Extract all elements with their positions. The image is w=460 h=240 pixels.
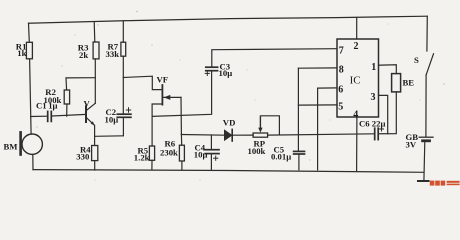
wire C5 bottom to ground rail — [298, 154, 300, 170]
svg-text:10μ: 10μ — [219, 68, 233, 78]
watermark red — [430, 181, 460, 186]
svg-text:8: 8 — [339, 65, 344, 76]
wire IC pin 3 to C6 node — [379, 95, 388, 134]
wire VF right lead down to R6 node — [180, 97, 182, 134]
potentiometer RP wiper arrow — [259, 117, 261, 129]
wire battery bottom to ground rail end — [423, 142, 426, 182]
svg-text:0.01μ: 0.01μ — [271, 152, 291, 162]
capacitor C3 plus sign — [205, 71, 209, 75]
wire rail to R7 — [122, 21, 124, 42]
transistor V base bar — [85, 106, 87, 122]
wire BM bottom to ground rail — [32, 154, 34, 169]
microphone BM circle — [22, 134, 42, 154]
svg-text:3V: 3V — [406, 140, 417, 150]
capacitor C3 plates — [206, 67, 218, 71]
svg-text:5: 5 — [338, 102, 343, 113]
svg-text:1.2k: 1.2k — [134, 153, 150, 163]
diode VD — [225, 130, 232, 140]
wire gate feed from R7 node to VF — [123, 76, 161, 89]
op-amp IC body — [337, 39, 379, 117]
transistor VF source lead — [152, 104, 162, 146]
svg-text:BM: BM — [4, 142, 18, 152]
capacitor C1 — [48, 111, 52, 121]
wire bottom ground rail — [33, 170, 424, 173]
resistor R1 — [26, 42, 32, 59]
svg-text:4: 4 — [353, 109, 358, 120]
wire C2 bottom to emitter wire — [122, 117, 124, 136]
wire emitter down — [94, 125, 96, 145]
capacitor C4 plates — [205, 150, 219, 154]
svg-text:1: 1 — [371, 62, 376, 73]
svg-text:2k: 2k — [79, 50, 88, 60]
wire rail corner to switch S — [426, 16, 428, 51]
potentiometer RP body — [253, 133, 268, 137]
capacitor C5 plates — [294, 151, 305, 154]
wire R6 bottom to ground rail — [181, 161, 183, 170]
svg-text:10μ: 10μ — [194, 150, 208, 160]
capacitor C2 plus sign — [126, 108, 130, 112]
resistor R3 — [93, 42, 99, 59]
capacitor C6 plates — [375, 128, 379, 139]
svg-text:2: 2 — [354, 41, 359, 52]
svg-text:3: 3 — [371, 92, 376, 103]
transistor V collector diagonal — [86, 103, 95, 110]
wire IC pin 2 to top rail — [356, 17, 358, 39]
switch S blade — [426, 54, 433, 75]
svg-text:BE: BE — [403, 78, 415, 88]
svg-text:230k: 230k — [160, 148, 178, 158]
battery end bar — [418, 180, 429, 182]
wire emitter to C2 bottom — [95, 135, 124, 138]
wire R6 node to VD anode — [181, 134, 224, 137]
wire IC pin 4 to ground rail — [356, 117, 358, 171]
transistor VF gate lead with arrow — [163, 96, 181, 98]
wire R7 bottom down to C2 — [122, 56, 124, 114]
svg-text:C1: C1 — [36, 101, 47, 111]
wire pin 6 vertical to ground rail — [317, 88, 319, 170]
earphone BE body — [392, 74, 401, 92]
wire IC pin 8 and pin 5 vertical with C5 — [297, 68, 299, 151]
wire pin 8 horizontal — [298, 67, 337, 69]
battery GB positive plate — [419, 136, 433, 138]
svg-text:100k: 100k — [248, 146, 266, 156]
resistor R4 — [92, 146, 98, 161]
wire RP right to C6 left — [268, 134, 375, 135]
svg-text:VD: VD — [223, 118, 236, 128]
svg-text:C6 22μ: C6 22μ — [359, 119, 385, 129]
svg-text:330: 330 — [76, 152, 90, 162]
wire base node to C1 left — [31, 115, 47, 117]
battery GB negative plate — [423, 139, 430, 142]
wire left branch top (rail to R1) — [28, 23, 31, 42]
wire R3 bottom to collector — [94, 59, 96, 103]
microphone BM element bar — [19, 132, 22, 154]
svg-text:1k: 1k — [17, 48, 26, 58]
wire R6 top lead — [180, 135, 182, 146]
svg-text:IC: IC — [350, 74, 361, 86]
resistor R7 — [121, 42, 126, 56]
wire top supply rail — [29, 16, 428, 23]
wire RP wiper over to output — [260, 116, 279, 135]
wire rail to R3 — [93, 22, 96, 42]
capacitor C4 plus sign — [214, 156, 218, 160]
transistor VF channel bar — [161, 85, 163, 105]
svg-text:7: 7 — [339, 46, 344, 57]
wire pin 5 horizontal — [298, 104, 337, 106]
capacitor C2 plates — [117, 114, 131, 117]
wire C4 top lead — [210, 135, 212, 150]
svg-text:6: 6 — [338, 85, 343, 96]
wire pin 6 horizontal — [318, 87, 337, 89]
svg-text:1μ: 1μ — [48, 101, 57, 111]
wire R2 bottom to base wire — [66, 104, 68, 116]
wire C3 top to IC pin 7 — [212, 49, 337, 67]
wire source node to C3 bottom — [152, 71, 212, 117]
wire C4 bottom to ground rail — [210, 154, 212, 170]
svg-text:33k: 33k — [106, 49, 120, 59]
transistor V emitter diagonal with arrow — [86, 118, 94, 126]
resistor R5 — [149, 146, 154, 160]
wire R1 bottom to BM top — [30, 59, 32, 134]
svg-text:VF: VF — [157, 75, 169, 85]
wire R4 bottom to ground rail — [94, 161, 96, 171]
wire C6 right up to BE bottom — [378, 92, 396, 134]
wire IC pin 1 to BE top — [379, 65, 397, 74]
wire C1 right to base of V — [52, 114, 85, 116]
capacitor C6 plus sign — [380, 127, 384, 131]
resistor R6 — [179, 145, 184, 161]
wire switch to battery top — [425, 75, 427, 137]
svg-text:S: S — [414, 55, 419, 65]
wire VD cathode to RP — [232, 134, 253, 136]
svg-text:10μ: 10μ — [105, 115, 119, 125]
resistor R2 — [64, 90, 69, 104]
svg-text:V: V — [84, 99, 91, 109]
wire R5 bottom to ground rail — [151, 160, 153, 170]
wire R2 top feedback (collector node to R2) — [66, 78, 95, 90]
